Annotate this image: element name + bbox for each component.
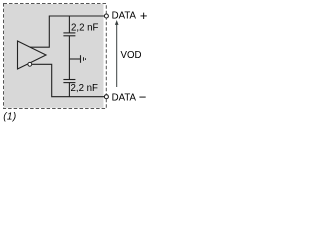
DATA- terminal bbox=[104, 95, 108, 99]
svg-text:DATA: DATA bbox=[112, 11, 137, 22]
inverting output bubble bbox=[28, 62, 32, 66]
wire: C1 to C2 common node bbox=[68, 36, 70, 80]
wire: non-inverting output to DATA+ rail bbox=[30, 16, 104, 47]
capacitor C2 lead (bottom) bbox=[68, 83, 70, 97]
capacitor C1 plates bbox=[63, 32, 75, 34]
svg-text:2,2 nF: 2,2 nF bbox=[71, 83, 99, 94]
capacitor C1 lead (top) bbox=[68, 16, 70, 33]
svg-text:−: − bbox=[139, 89, 147, 104]
svg-text:+: + bbox=[140, 8, 148, 23]
driver block dashed outline bbox=[4, 4, 107, 109]
svg-text:(1): (1) bbox=[3, 112, 16, 123]
VOD measurement arrow bbox=[116, 24, 118, 87]
DATA+ terminal bbox=[104, 14, 108, 18]
capacitor C2 plates bbox=[63, 79, 75, 81]
driver buffer U1 bbox=[18, 41, 47, 69]
svg-text:2,2 nF: 2,2 nF bbox=[71, 23, 99, 34]
wire: inverting output to DATA- rail bbox=[32, 64, 105, 96]
ground symbol bbox=[81, 55, 86, 63]
driver block background bbox=[4, 4, 104, 108]
ground stub wire bbox=[69, 58, 80, 60]
svg-text:DATA: DATA bbox=[112, 93, 137, 104]
svg-text:VOD: VOD bbox=[121, 50, 142, 61]
